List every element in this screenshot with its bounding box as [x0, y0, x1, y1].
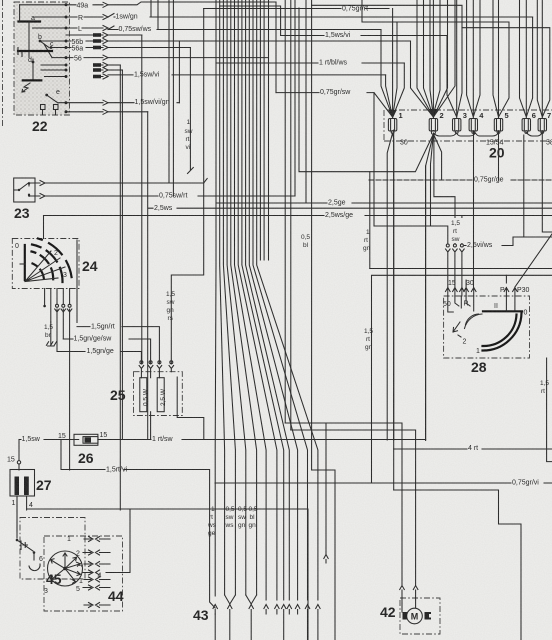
switch 22 contact b	[38, 34, 49, 48]
svg-text:rt: rt	[541, 388, 545, 395]
svg-text:vi: vi	[186, 144, 191, 151]
feeder wire to 1,5ws/vi	[220, 6, 281, 36]
svg-text:sw: sw	[167, 299, 175, 306]
vertical from row y41	[178, 41, 180, 103]
svg-text:20: 20	[489, 145, 505, 161]
rotary switch 24 box	[12, 239, 97, 289]
coil terminal 4	[27, 496, 33, 510]
svg-text:1: 1	[79, 578, 83, 585]
switch 24 zero bar	[15, 216, 44, 281]
svg-text:0,5: 0,5	[301, 234, 310, 241]
wires below 25	[150, 412, 152, 440]
contact breaker 45	[16, 496, 85, 587]
svg-text:1,5gn/ge: 1,5gn/ge	[87, 348, 114, 355]
svg-text:rt: rt	[453, 228, 457, 235]
svg-text:2,5ge: 2,5ge	[328, 200, 346, 207]
svg-text:1,5: 1,5	[166, 291, 175, 298]
svg-text:3: 3	[44, 588, 48, 595]
wire 0,75sw/ws from L	[108, 26, 381, 33]
ignition starter switch 28 box	[444, 296, 530, 375]
combination switch 22 box	[14, 2, 70, 115]
fan wires above fuse 6	[520, 0, 533, 119]
svg-text:1,5gn/ge/sw: 1,5gn/ge/sw	[74, 336, 113, 343]
svg-text:rt: rt	[366, 336, 370, 343]
wire 1,5gn/rt	[77, 240, 159, 364]
wire 1sw/gn from R	[108, 14, 533, 21]
wire 1 rt/bl/ws	[216, 60, 404, 67]
svg-text:23: 23	[14, 205, 30, 221]
distributor spokes	[39, 553, 81, 595]
fuse 2	[429, 111, 443, 135]
svg-text:56a: 56a	[72, 45, 84, 52]
svg-text:3: 3	[463, 111, 467, 120]
svg-text:rt: rt	[364, 237, 368, 244]
svg-text:15/54: 15/54	[486, 139, 504, 146]
fuse box 20 outline	[384, 110, 552, 161]
bundle wires to motor feeds	[285, 0, 291, 430]
vertical from row y70	[121, 70, 123, 440]
svg-text:2: 2	[76, 551, 80, 558]
svg-text:L: L	[78, 26, 82, 33]
fuse 5	[494, 111, 508, 133]
svg-text:gn: gn	[249, 522, 257, 529]
bus wire 58 connecting fuses 6-7	[526, 133, 542, 137]
svg-text:2: 2	[463, 339, 467, 346]
svg-text:ws: ws	[225, 522, 235, 529]
ignition coil 27	[10, 470, 52, 497]
terminal arrows of 28	[446, 275, 530, 296]
wire row y70	[108, 69, 122, 71]
labels above 43	[207, 506, 258, 537]
fuse 4	[469, 111, 484, 133]
svg-text:58: 58	[546, 139, 552, 146]
motor feed wire 2	[291, 430, 416, 585]
wire 1,5ws/vi	[281, 32, 447, 39]
label 1,5 rt sw	[449, 218, 464, 243]
terminal L of 22	[66, 26, 108, 33]
wire 1,5sw/vi	[108, 72, 386, 79]
resistor element 1 of 25	[140, 378, 150, 412]
switch 24 arcs	[32, 239, 73, 283]
svg-text:1,5gn/rt: 1,5gn/rt	[91, 323, 115, 330]
vertical from row y65	[119, 65, 121, 510]
svg-text:sw: sw	[452, 236, 460, 243]
bundle wires to 2,5ge and 2,5ws/ge	[306, 0, 312, 470]
svg-text:rs: rs	[168, 315, 174, 322]
fuse 2 tip blob	[429, 109, 438, 119]
fan wires above fuse 1	[374, 9, 404, 119]
wire row y47.5 to node x182.5	[108, 47, 190, 49]
wire row y35 to node x141.8	[108, 34, 142, 36]
svg-text:0,75gr/sw: 0,75gr/sw	[320, 89, 351, 96]
svg-text:1: 1	[366, 229, 370, 236]
connector 43	[193, 595, 320, 640]
svg-text:1: 1	[476, 348, 480, 355]
svg-text:2,5ws: 2,5ws	[154, 205, 173, 212]
svg-text:0,75gr/rt: 0,75gr/rt	[342, 6, 368, 13]
switch 22 return-arrow	[22, 83, 30, 92]
svg-text:sw: sw	[226, 514, 234, 521]
switch 28 internals	[443, 296, 528, 355]
svg-text:5: 5	[76, 586, 80, 593]
svg-text:1,5sw/vi: 1,5sw/vi	[134, 72, 160, 79]
fan wires above fuse 4	[467, 0, 480, 119]
svg-text:1,5sw/vi/gn: 1,5sw/vi/gn	[135, 99, 170, 106]
svg-text:P: P	[500, 287, 505, 294]
wire 2,5ws/ge	[44, 212, 552, 219]
wire row y112	[108, 111, 148, 113]
svg-text:M: M	[411, 612, 419, 622]
wiper motor 42	[380, 586, 440, 635]
svg-text:4: 4	[29, 502, 33, 509]
page border mark	[2, 0, 4, 128]
svg-text:0: 0	[524, 310, 528, 317]
wire 1,5sw/vi/gn	[108, 99, 179, 106]
rotor feed wire	[106, 509, 130, 573]
terminal rows y102 y112 of 22	[66, 100, 108, 114]
wire 0,75gr/ge	[369, 172, 552, 269]
feeder wire from top to 0,75sw/rt	[294, 0, 296, 196]
switch 22 main contact bar	[18, 48, 52, 58]
svg-text:30: 30	[466, 280, 474, 287]
svg-text:1,5: 1,5	[451, 220, 460, 227]
wire below fuse 5	[498, 132, 500, 180]
stub wire x326	[324, 423, 328, 563]
svg-text:gn: gn	[238, 522, 246, 529]
svg-text:gn: gn	[363, 245, 371, 252]
wire 15 to coil	[7, 440, 21, 471]
motor feed wire 1	[285, 423, 402, 585]
svg-text:15: 15	[7, 457, 15, 464]
wires below fuse 2	[299, 8, 455, 440]
switch 22 contact e	[41, 77, 67, 116]
blower resistors 25 box	[110, 372, 182, 416]
switch 24 output stubs	[43, 289, 72, 471]
svg-text:e: e	[56, 89, 60, 96]
wire 1,5gn/ge/sw	[57, 336, 151, 364]
connector circles above 28	[446, 244, 465, 287]
wire 1,5 rt below 28	[540, 358, 552, 462]
switch 23 box	[14, 178, 35, 202]
svg-text:7: 7	[547, 111, 551, 120]
svg-text:2,5 W: 2,5 W	[160, 388, 167, 406]
feeder wire to 0,75gr/sw	[275, 2, 277, 93]
wire diagonal P30	[515, 234, 552, 287]
wire 1 rt gn to right edge	[363, 229, 552, 269]
svg-text:1,5: 1,5	[540, 380, 549, 387]
bus wire 15/54 connecting fuses 2-5	[433, 133, 498, 136]
svg-text:sw: sw	[185, 128, 193, 135]
svg-text:0: 0	[15, 243, 19, 250]
terminal dots of 22	[65, 3, 68, 113]
svg-text:b: b	[38, 34, 42, 41]
svg-text:56: 56	[74, 55, 82, 62]
svg-text:P30: P30	[517, 287, 530, 294]
svg-text:R: R	[78, 15, 83, 22]
svg-text:1,5: 1,5	[44, 324, 53, 331]
fan wires above fuse 5	[362, 0, 509, 119]
coil terminal 1	[12, 496, 18, 532]
node jog for 1,5 sw gn rs wire	[166, 9, 204, 365]
wire below fuse 6	[523, 135, 525, 237]
plug connector rows of 44	[76, 537, 110, 608]
svg-text:6: 6	[39, 556, 43, 563]
wire 0,75gr/vi	[215, 470, 552, 640]
svg-text:26: 26	[78, 450, 94, 466]
svg-text:ws: ws	[207, 522, 217, 529]
svg-text:1 rt/bl/ws: 1 rt/bl/ws	[319, 60, 348, 67]
svg-text:42: 42	[380, 604, 396, 620]
svg-text:0,5: 0,5	[238, 506, 247, 513]
fuse 3	[453, 111, 467, 133]
svg-text:4: 4	[79, 562, 83, 569]
terminal R of 22	[66, 15, 108, 22]
wire 0,75gr/sw	[276, 89, 374, 226]
switch 22 internal lever a	[19, 5, 41, 51]
svg-text:1: 1	[67, 536, 71, 543]
switch 22 contact c	[44, 41, 54, 58]
svg-text:0,75gr/ge: 0,75gr/ge	[474, 177, 504, 184]
svg-text:0,75sw/ws: 0,75sw/ws	[119, 26, 152, 33]
HT wire 4 to distributor	[27, 509, 308, 640]
wire row y65	[108, 64, 120, 66]
svg-text:30: 30	[400, 139, 408, 146]
svg-text:43: 43	[193, 607, 209, 623]
svg-text:28: 28	[471, 359, 487, 375]
top left verticals	[169, 0, 173, 196]
fan wires above fuse 7	[462, 0, 550, 119]
wires below fuse 1	[387, 133, 394, 440]
svg-text:1: 1	[211, 506, 215, 513]
svg-text:15: 15	[100, 432, 108, 439]
fuse 1 tip blob	[389, 110, 397, 119]
switch 22 contact d lever	[23, 57, 66, 80]
svg-text:sw: sw	[238, 514, 246, 521]
terminal 56 of 22	[66, 55, 108, 62]
svg-text:50: 50	[443, 301, 451, 308]
svg-text:1sw/gn: 1sw/gn	[116, 14, 138, 21]
vertical from row y35 to 25	[141, 35, 143, 364]
svg-text:5: 5	[505, 111, 509, 120]
svg-text:d: d	[28, 57, 32, 64]
wire 56	[108, 57, 269, 59]
terminal 56a of 22	[66, 45, 108, 52]
wire 1,5rt/vi	[61, 440, 215, 609]
terminal rows y65 y70 y76 of 22	[93, 63, 108, 80]
svg-text:a: a	[31, 15, 35, 22]
svg-text:gn: gn	[167, 307, 175, 314]
wire 1,5gn/ge	[87, 348, 142, 364]
svg-text:3: 3	[63, 272, 67, 279]
wire 2,5ge	[216, 200, 552, 207]
svg-text:0,5: 0,5	[249, 506, 258, 513]
wire sw rt vi with end tick	[188, 48, 194, 174]
distributor 44	[44, 536, 124, 611]
switch 22 internal wires to terminals	[20, 5, 66, 58]
svg-text:15: 15	[448, 280, 456, 287]
svg-text:1,5rt/vi: 1,5rt/vi	[106, 467, 127, 474]
short top stubs	[151, 0, 158, 30]
wire y226 to terminal 50	[374, 226, 448, 244]
wire 2,5vi/ws	[465, 237, 552, 249]
svg-text:24: 24	[82, 258, 98, 274]
bundle vertical wires	[215, 0, 318, 600]
svg-text:0,5: 0,5	[226, 506, 235, 513]
wire 1,5 rt gn down from right edge	[364, 275, 552, 483]
svg-text:27: 27	[36, 477, 52, 493]
wire 0,75sw/rt from 23	[35, 193, 295, 200]
svg-text:1: 1	[399, 111, 403, 120]
fuse 7	[538, 111, 551, 133]
svg-text:2,5vi/ws: 2,5vi/ws	[467, 242, 493, 249]
wire below fuse 7 to 58	[542, 132, 552, 232]
svg-text:25: 25	[110, 387, 126, 403]
fuse 26	[58, 432, 107, 466]
svg-text:0,5 W: 0,5 W	[143, 388, 150, 406]
resistor element 2 of 25	[157, 378, 167, 412]
vertical from row y112	[147, 112, 149, 440]
terminals of 25	[139, 361, 174, 378]
label 0,5 bl on wire x311	[301, 234, 310, 249]
switch 24 wiper lines	[25, 251, 65, 282]
svg-text:rt: rt	[209, 514, 213, 521]
fan wires above fuse 3	[312, 0, 462, 119]
fuse 6	[522, 111, 536, 133]
svg-text:rt: rt	[186, 136, 190, 143]
svg-text:1,5sw: 1,5sw	[22, 436, 41, 443]
svg-text:c: c	[50, 41, 54, 48]
wire 1,5br ground stub	[44, 322, 57, 346]
wire 2,5ws	[148, 205, 552, 212]
wire from 25 to 1 rt/sw line	[177, 377, 204, 440]
label 1 sw rt vi	[185, 119, 193, 151]
svg-text:22: 22	[32, 118, 48, 134]
wire row y41 to node x179.4	[108, 40, 411, 42]
wire below fuse 4 to terminal 30	[473, 132, 475, 287]
terminal 56b of 22	[66, 39, 108, 46]
terminal row y35 of 22	[66, 33, 108, 38]
svg-text:1: 1	[12, 500, 16, 507]
svg-text:4 rt: 4 rt	[468, 445, 478, 452]
svg-text:6: 6	[532, 111, 536, 120]
fan wires above fuse 2	[411, 0, 456, 119]
svg-text:2: 2	[54, 250, 58, 257]
wire 4 rt	[394, 130, 552, 640]
wire 1 rt/sw	[98, 436, 426, 443]
svg-text:bl: bl	[303, 242, 309, 249]
wire 49a	[108, 2, 276, 5]
svg-text:II: II	[494, 303, 498, 310]
svg-text:0,75gr/vi: 0,75gr/vi	[512, 480, 539, 487]
svg-text:2: 2	[440, 111, 444, 120]
svg-text:44: 44	[108, 588, 124, 604]
wire from 23 to P	[35, 179, 207, 186]
svg-text:15: 15	[58, 433, 66, 440]
wire 1,5sw	[19, 436, 79, 443]
terminal 49a of 22	[66, 2, 108, 9]
wire 0,75gr/rt	[204, 6, 389, 13]
feed to right connector	[461, 216, 463, 245]
svg-text:49a: 49a	[77, 3, 89, 10]
fuse 1	[388, 111, 402, 133]
svg-text:2,5ws/ge: 2,5ws/ge	[325, 212, 353, 219]
svg-text:bl: bl	[250, 514, 256, 521]
svg-text:1 rt/sw: 1 rt/sw	[152, 436, 174, 443]
svg-text:1,5ws/vi: 1,5ws/vi	[325, 32, 351, 39]
svg-text:ge: ge	[208, 530, 216, 537]
